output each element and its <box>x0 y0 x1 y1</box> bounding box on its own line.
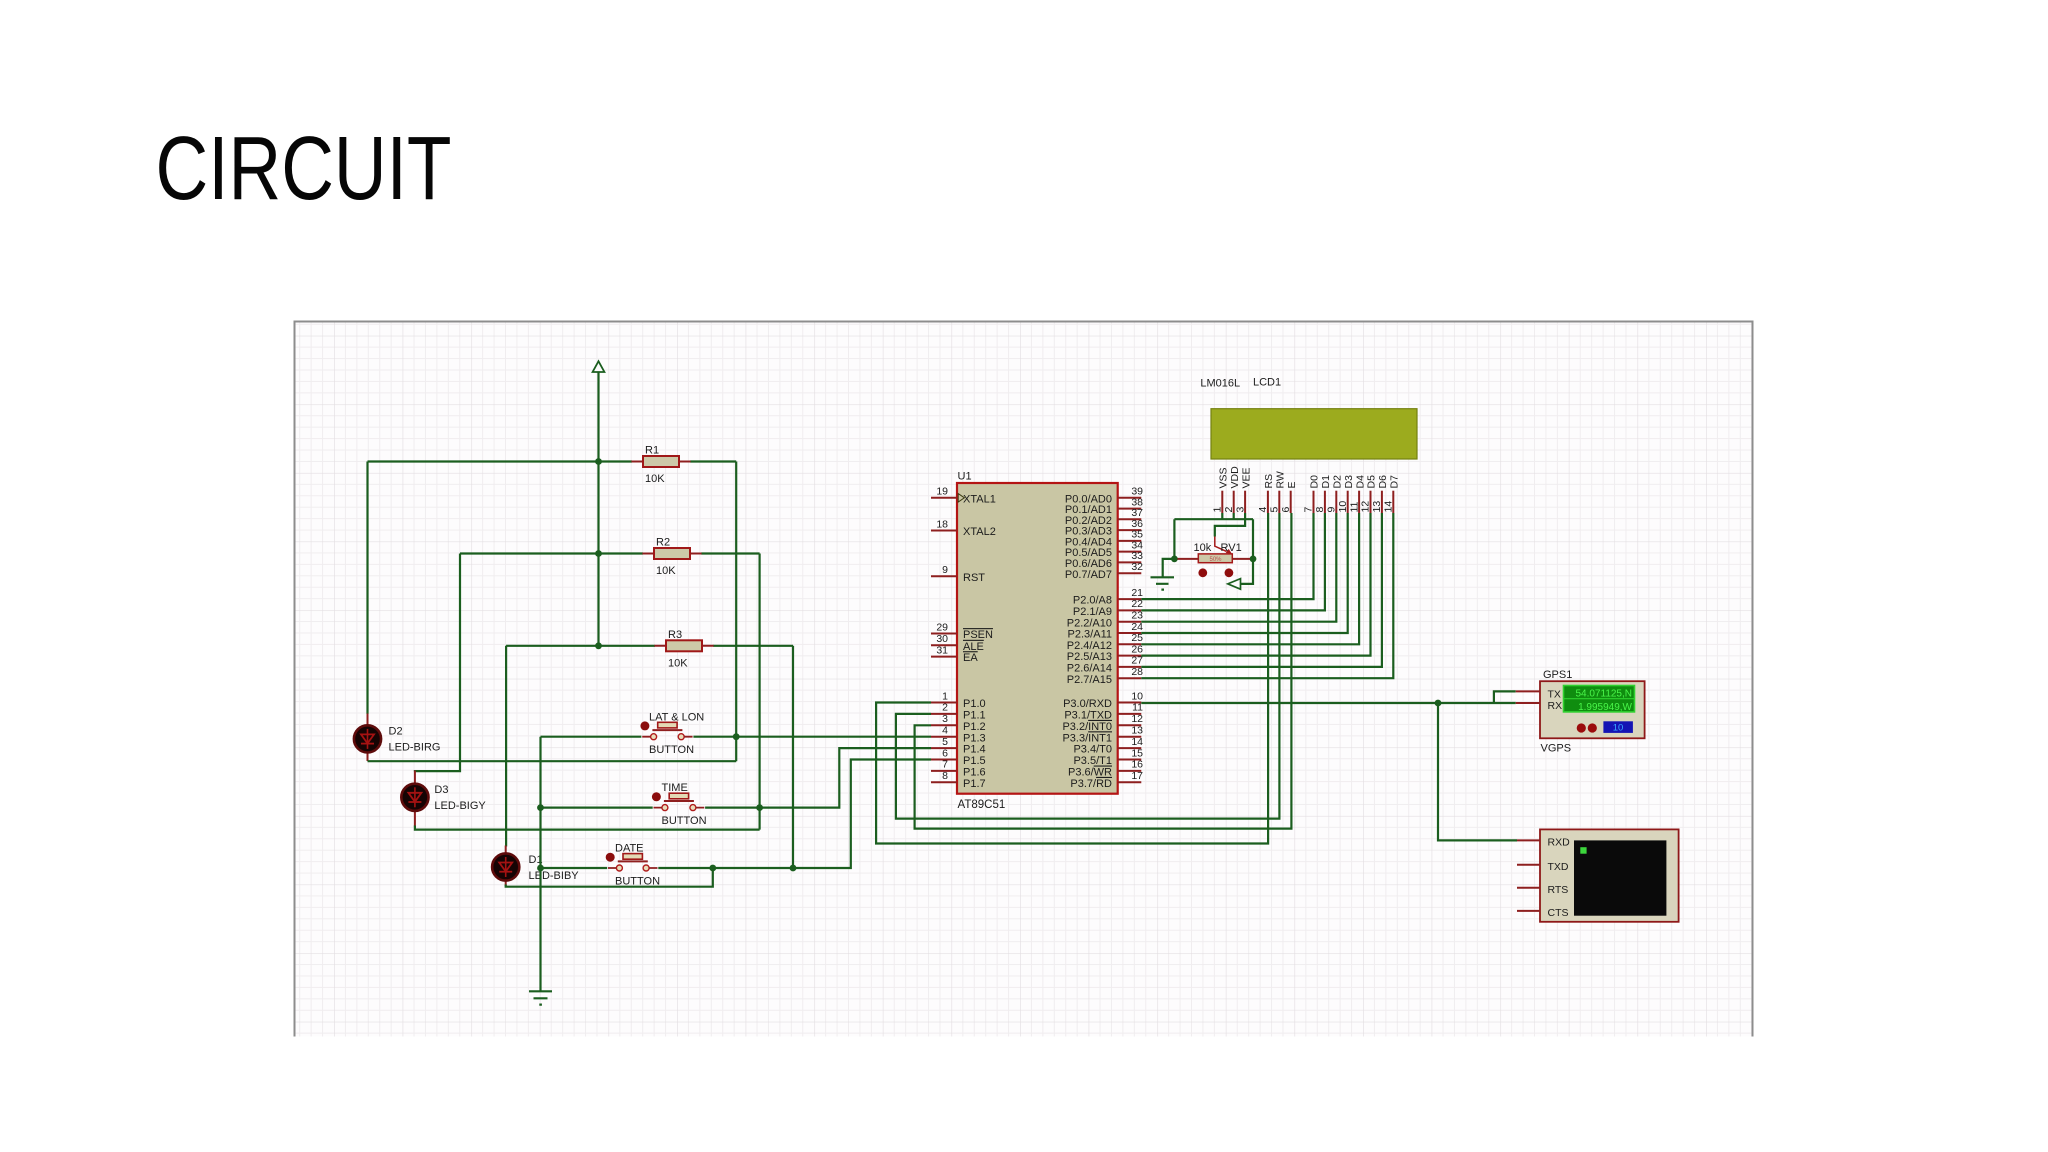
svg-text:P3.2/INT0: P3.2/INT0 <box>1062 721 1112 733</box>
LCD pin 7 D0 <box>1303 475 1321 513</box>
U1 pin 29 PSEN <box>931 621 993 641</box>
svg-text:P1.0: P1.0 <box>963 698 986 710</box>
svg-text:PSEN: PSEN <box>963 629 993 641</box>
svg-text:P1.6: P1.6 <box>963 767 986 779</box>
svg-text:P2.6/A14: P2.6/A14 <box>1067 663 1112 675</box>
wire D3 cathode row to R2 right riser <box>415 826 760 830</box>
svg-text:D7: D7 <box>1389 475 1401 489</box>
U1 pin 18 XTAL2 <box>931 518 996 538</box>
svg-text:17: 17 <box>1131 770 1143 782</box>
wire LAT&LON right contact to U1 P1.3 <box>693 736 931 738</box>
wire P2.6 to LCD D6 <box>1141 513 1382 667</box>
IC U1 AT89C51 body <box>957 471 1118 812</box>
LED D1 LED-BIBY <box>492 846 579 887</box>
svg-text:GPS1: GPS1 <box>1543 669 1572 681</box>
svg-text:P0.7/AD7: P0.7/AD7 <box>1065 569 1112 581</box>
svg-text:VGPS: VGPS <box>1541 743 1572 755</box>
svg-text:P2.2/A10: P2.2/A10 <box>1067 617 1112 629</box>
U1 pin 15 P3.5/T1 <box>1073 747 1143 767</box>
svg-text:21: 21 <box>1131 587 1143 599</box>
U1 pin 27 P2.6/A14 <box>1067 655 1143 675</box>
svg-text:7: 7 <box>942 759 948 771</box>
node +5V/R1 junction <box>595 458 602 465</box>
svg-text:8: 8 <box>942 770 948 782</box>
U1 pin 26 P2.5/A13 <box>1067 643 1143 663</box>
U1 pin 1 P1.0 <box>931 690 986 710</box>
svg-text:31: 31 <box>936 644 948 656</box>
U1 pin 33 P0.6/AD6 <box>1065 550 1143 570</box>
svg-text:P2.0/A8: P2.0/A8 <box>1073 595 1112 607</box>
svg-text:5: 5 <box>942 736 948 748</box>
wire P1.2 to LCD E (U route) <box>915 513 1292 829</box>
terminal pin RTS <box>1517 887 1540 889</box>
button TIME <box>652 782 707 827</box>
svg-text:12: 12 <box>1131 713 1143 725</box>
wire R3 row <box>506 645 793 647</box>
svg-text:10: 10 <box>1131 690 1143 702</box>
wire P2.2 to LCD D2 <box>1141 513 1336 622</box>
node +5V/R3 junction <box>595 642 602 649</box>
terminal pin RXD <box>1517 839 1540 841</box>
svg-text:DATE: DATE <box>615 843 644 855</box>
svg-text:2: 2 <box>1223 507 1235 513</box>
U1 pin 24 P2.3/A11 <box>1068 621 1144 641</box>
LCD pin 1 VSS <box>1212 467 1230 513</box>
svg-text:9: 9 <box>1326 507 1338 513</box>
svg-text:7: 7 <box>1303 507 1315 513</box>
LCD pin 2 VDD <box>1223 466 1241 513</box>
svg-text:P3.3/INT1: P3.3/INT1 <box>1062 732 1112 744</box>
svg-text:BUTTON: BUTTON <box>662 815 707 827</box>
svg-text:RS: RS <box>1263 474 1275 489</box>
GPS module GPS1 VGPS <box>1516 669 1645 755</box>
svg-text:LCD1: LCD1 <box>1253 377 1281 389</box>
wire LCD VEE to pot wiper <box>1215 513 1245 537</box>
svg-text:ALE: ALE <box>963 641 984 653</box>
U1 pin 34 P0.5/AD5 <box>1065 539 1143 559</box>
wire VSS net down to pot left junction and ground <box>1163 519 1175 577</box>
LCD pin 3 VEE <box>1234 467 1252 513</box>
wire TIME left contact to ground riser <box>541 806 653 808</box>
svg-text:LM016L: LM016L <box>1200 378 1240 390</box>
svg-text:P2.7/A15: P2.7/A15 <box>1067 674 1112 686</box>
wire P2.0 to LCD D0 <box>1141 513 1313 599</box>
svg-text:D2: D2 <box>389 726 403 738</box>
svg-text:10K: 10K <box>668 657 688 669</box>
svg-text:10: 10 <box>1337 501 1349 513</box>
wire P3.0 to GPS RX/TX <box>1141 691 1515 703</box>
wire R1 right riser down <box>735 462 737 762</box>
svg-text:10: 10 <box>1613 722 1624 733</box>
resistor R1 10K <box>631 445 690 486</box>
svg-text:LED-BIGY: LED-BIGY <box>434 800 486 812</box>
svg-text:P3.7/RD: P3.7/RD <box>1070 778 1112 790</box>
U1 pin 12 P3.2/INT0 <box>1062 713 1143 733</box>
svg-text:8: 8 <box>1314 507 1326 513</box>
svg-text:LED-BIBY: LED-BIBY <box>529 870 580 882</box>
svg-text:P2.3/A11: P2.3/A11 <box>1068 629 1112 641</box>
svg-text:EA: EA <box>963 652 978 664</box>
svg-text:RTS: RTS <box>1548 884 1569 896</box>
wire LAT&LON left contact to ground riser <box>541 736 642 738</box>
svg-text:RW: RW <box>1275 471 1287 488</box>
wire P2.3 to LCD D3 <box>1141 513 1347 633</box>
svg-text:P2.5/A13: P2.5/A13 <box>1067 651 1112 663</box>
button LAT &amp; LON <box>640 712 704 757</box>
svg-text:11: 11 <box>1348 501 1360 512</box>
wire R1 row (+5V to R1, R1 to right riser) <box>368 460 737 462</box>
ground symbol (main) <box>529 991 552 1004</box>
node R1/D2/button junction <box>733 733 740 740</box>
wire R2 right riser down <box>758 554 760 830</box>
LED D2 LED-BIRG <box>354 714 441 762</box>
svg-text:U1: U1 <box>958 471 972 483</box>
U1 pin 32 P0.7/AD7 <box>1065 561 1143 581</box>
LCD pin 4 RS <box>1257 474 1275 513</box>
LCD pin 11 D4 <box>1348 475 1366 513</box>
svg-text:14: 14 <box>1131 736 1143 748</box>
svg-text:5: 5 <box>1269 507 1281 513</box>
U1 pin 28 P2.7/A15 <box>1067 666 1143 686</box>
svg-text:3: 3 <box>942 713 948 725</box>
svg-text:E: E <box>1286 481 1298 488</box>
U1 pin 13 P3.3/INT1 <box>1062 725 1143 745</box>
svg-text:D6: D6 <box>1377 475 1389 489</box>
LCD LCD1 LM016L display body <box>1200 377 1417 460</box>
svg-text:1: 1 <box>1212 507 1224 513</box>
svg-text:P1.1: P1.1 <box>963 710 986 722</box>
svg-text:13: 13 <box>1371 501 1383 513</box>
terminal pin CTS <box>1517 910 1540 912</box>
svg-text:P1.5: P1.5 <box>963 755 986 767</box>
svg-text:LED-BIRG: LED-BIRG <box>389 742 441 754</box>
U1 pin 39 P0.0/AD0 <box>1065 486 1143 506</box>
U1 pin 7 P1.6 <box>931 759 986 779</box>
wire R2 row <box>460 552 760 554</box>
svg-text:P2.4/A12: P2.4/A12 <box>1067 640 1112 652</box>
wire +5V rail vertical <box>597 372 599 646</box>
wire DATE right contact row to P1.5 riser <box>658 760 931 869</box>
wire TIME right contact row to P1.4 riser <box>705 748 931 808</box>
U1 pin 5 P1.4 <box>931 736 986 756</box>
U1 pin 14 P3.4/T0 <box>1073 736 1143 756</box>
svg-text:32: 32 <box>1131 561 1143 573</box>
U1 XTAL1 pin arrow marker <box>958 494 964 502</box>
node pot right junction <box>1250 556 1257 563</box>
U1 pin 3 P1.2 <box>931 713 986 733</box>
U1 pin 38 P0.1/AD1 <box>1065 496 1143 516</box>
power terminal +5V arrow <box>593 361 605 372</box>
svg-text:6: 6 <box>942 747 948 759</box>
U1 pin 4 P1.3 <box>931 725 986 745</box>
svg-text:9: 9 <box>942 564 948 576</box>
svg-text:CTS: CTS <box>1548 907 1569 919</box>
LCD pin 14 D7 <box>1383 475 1401 513</box>
svg-text:4: 4 <box>1257 507 1269 513</box>
wire P2.5 to LCD D5 <box>1141 513 1370 656</box>
wire serial net to terminal RXD <box>1438 703 1517 840</box>
svg-text:VEE: VEE <box>1240 467 1252 488</box>
U1 pin 35 P0.4/AD4 <box>1065 529 1143 549</box>
svg-text:VSS: VSS <box>1218 467 1230 488</box>
svg-text:BUTTON: BUTTON <box>615 876 660 888</box>
wire P1.1 to LCD RW (U route) <box>896 513 1280 819</box>
GPS pin TX <box>1516 690 1540 692</box>
svg-text:30: 30 <box>936 633 948 645</box>
LCD pin 9 D2 <box>1326 475 1344 513</box>
svg-text:R1: R1 <box>645 445 659 457</box>
svg-text:2: 2 <box>942 702 948 714</box>
node TIME/ground junction <box>537 804 544 811</box>
svg-text:18: 18 <box>936 518 948 530</box>
LCD pin 5 RW <box>1269 471 1287 513</box>
resistor R3 10K <box>654 629 713 670</box>
svg-text:54.071125,N: 54.071125,N <box>1575 688 1632 699</box>
svg-text:10K: 10K <box>645 473 665 485</box>
U1 pin 17 P3.7/RD <box>1070 770 1143 790</box>
button DATE <box>606 843 660 888</box>
virtual terminal <box>1517 829 1679 921</box>
U1 pin 8 P1.7 <box>931 770 986 790</box>
wire R3 left riser down to D1 <box>505 646 507 847</box>
GPS pin RX <box>1516 702 1540 704</box>
wire LCD VSS to ground / VDD to pot right (collinear) <box>1174 513 1253 519</box>
node DATE/R3 junction <box>790 865 797 872</box>
wire R1 left riser down to D2 <box>366 462 368 715</box>
U1 pin 37 P0.2/AD2 <box>1065 507 1143 527</box>
node R2/D3/TIME junction <box>756 804 763 811</box>
svg-text:6: 6 <box>1280 507 1292 513</box>
svg-text:RXD: RXD <box>1548 837 1571 849</box>
wire R2 left riser down, to D3 top <box>415 554 460 772</box>
wire P1.0 to LCD RS (U route) <box>876 513 1268 844</box>
svg-text:R3: R3 <box>668 629 682 641</box>
schematic sheet border <box>295 322 1753 1037</box>
LCD pin 12 D5 <box>1360 475 1378 513</box>
U1 pin 36 P0.3/AD3 <box>1065 518 1143 538</box>
wire R3 right riser down <box>792 646 794 868</box>
svg-text:13: 13 <box>1131 725 1143 737</box>
svg-text:10K: 10K <box>656 565 676 577</box>
U1 pin 30 ALE <box>931 633 984 653</box>
svg-text:R2: R2 <box>656 537 670 549</box>
svg-text:19: 19 <box>936 486 948 498</box>
svg-text:CIRCUIT: CIRCUIT <box>156 119 452 219</box>
svg-text:4: 4 <box>942 725 948 737</box>
svg-text:D3: D3 <box>1343 475 1355 489</box>
svg-text:AT89C51: AT89C51 <box>958 799 1006 811</box>
svg-text:P3.0/RXD: P3.0/RXD <box>1063 698 1112 710</box>
svg-text:10k: 10k <box>1194 542 1212 554</box>
svg-text:14: 14 <box>1383 501 1395 513</box>
svg-text:D1: D1 <box>1320 475 1332 489</box>
svg-text:3: 3 <box>1234 507 1246 513</box>
svg-text:P3.5/T1: P3.5/T1 <box>1073 755 1112 767</box>
svg-text:D4: D4 <box>1354 475 1366 489</box>
U1 pin 22 P2.1/A9 <box>1073 598 1143 618</box>
LCD pin 6 E <box>1280 481 1298 513</box>
svg-text:1: 1 <box>942 690 948 702</box>
LCD pin 13 D6 <box>1371 475 1389 513</box>
svg-text:LAT & LON: LAT & LON <box>649 712 704 724</box>
svg-text:TXD: TXD <box>1548 861 1569 873</box>
wire D2 cathode row to R1 right riser <box>368 760 737 762</box>
LCD pin 10 D3 <box>1337 475 1355 513</box>
schematic sheet background grid <box>295 322 1753 1037</box>
U1 pin 6 P1.5 <box>931 747 986 767</box>
U1 pin 9 RST <box>931 564 985 584</box>
wire P2.4 to LCD D4 <box>1141 513 1359 644</box>
wire VDD net down to pot right junction and power arrow <box>1241 519 1253 584</box>
svg-text:P3.4/T0: P3.4/T0 <box>1073 744 1112 756</box>
svg-text:P1.7: P1.7 <box>963 778 986 790</box>
U1 pin 2 P1.1 <box>931 702 986 722</box>
potentiometer RV1 10k <box>1178 537 1251 578</box>
LED D3 LED-BIGY <box>401 771 486 827</box>
svg-text:P1.2: P1.2 <box>963 721 986 733</box>
U1 pin 19 XTAL1 <box>931 486 996 506</box>
terminal pin TXD <box>1517 864 1540 866</box>
U1 pin 16 P3.6/WR <box>1068 759 1143 779</box>
U1 pin 31 EA <box>931 644 978 664</box>
svg-text:12: 12 <box>1360 501 1372 513</box>
svg-text:D5: D5 <box>1366 475 1378 489</box>
svg-text:16: 16 <box>1131 759 1143 771</box>
svg-text:15: 15 <box>1131 747 1143 759</box>
svg-text:RX: RX <box>1548 700 1563 712</box>
LCD pin 8 D1 <box>1314 475 1332 513</box>
U1 pin 23 P2.2/A10 <box>1067 610 1143 630</box>
svg-text:XTAL2: XTAL2 <box>963 526 996 538</box>
svg-text:TX: TX <box>1548 688 1561 700</box>
svg-text:TIME: TIME <box>662 782 688 794</box>
resistor R2 10K <box>642 537 701 578</box>
svg-text:BUTTON: BUTTON <box>649 744 694 756</box>
svg-text:P3.6/WR: P3.6/WR <box>1068 767 1112 779</box>
svg-text:RV1: RV1 <box>1221 542 1242 554</box>
svg-text:P2.1/A9: P2.1/A9 <box>1073 606 1112 618</box>
svg-text:P1.3: P1.3 <box>963 732 986 744</box>
ground symbol (LCD contrast) <box>1151 577 1175 589</box>
node serial net junction <box>1435 700 1442 707</box>
wire P2.7 to LCD D7 <box>1141 513 1393 678</box>
U1 pin 25 P2.4/A12 <box>1067 632 1143 652</box>
wire ground riser <box>539 737 541 992</box>
svg-text:D3: D3 <box>434 784 448 796</box>
svg-text:XTAL1: XTAL1 <box>963 493 996 505</box>
power terminal VDD arrow (left pointing) <box>1228 579 1241 590</box>
node pot left junction <box>1171 556 1178 563</box>
U1 pin 10 P3.0/RXD <box>1063 690 1143 710</box>
svg-text:P3.1/TXD: P3.1/TXD <box>1064 710 1112 722</box>
svg-text:1.995949,W: 1.995949,W <box>1578 702 1632 713</box>
svg-text:P1.4: P1.4 <box>963 744 986 756</box>
wire D1 cathode row riser to DATE row <box>506 868 713 887</box>
svg-text:D0: D0 <box>1309 475 1321 489</box>
svg-text:29: 29 <box>936 621 948 633</box>
U1 pin 11 P3.1/TXD <box>1064 702 1143 722</box>
U1 pin 21 P2.0/A8 <box>1073 587 1143 607</box>
svg-text:RST: RST <box>963 572 985 584</box>
wire P2.1 to LCD D1 <box>1141 513 1325 610</box>
svg-text:50%: 50% <box>1210 557 1223 563</box>
svg-text:D2: D2 <box>1332 475 1344 489</box>
wire DATE left contact to ground riser <box>541 867 608 869</box>
node +5V/R2 junction <box>595 550 602 557</box>
svg-text:VDD: VDD <box>1229 466 1241 489</box>
node DATE/ground junction <box>537 865 544 872</box>
node DATE/D1 junction <box>709 865 716 872</box>
